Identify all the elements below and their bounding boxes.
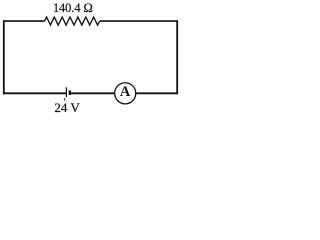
svg-text:24 V: 24 V bbox=[54, 100, 80, 115]
wire left vertical bbox=[3, 20, 5, 94]
battery B1 long plate bbox=[65, 87, 67, 97]
resistor R 140.4 ohm zigzag bbox=[45, 17, 100, 25]
wire top-left segment bbox=[4, 20, 45, 22]
ammeter M1 circle bbox=[115, 83, 136, 104]
wire top-right segment bbox=[100, 20, 177, 22]
wire bottom-right segment bbox=[136, 92, 177, 94]
svg-text:140.4 Ω: 140.4 Ω bbox=[53, 1, 93, 15]
battery polarity tick bbox=[64, 98, 66, 100]
svg-text:A: A bbox=[120, 84, 131, 100]
wire right vertical bbox=[176, 20, 178, 94]
battery B1 short plate bbox=[69, 90, 71, 95]
wire bottom-left segment bbox=[4, 92, 67, 94]
wire bottom-middle segment bbox=[70, 92, 115, 94]
